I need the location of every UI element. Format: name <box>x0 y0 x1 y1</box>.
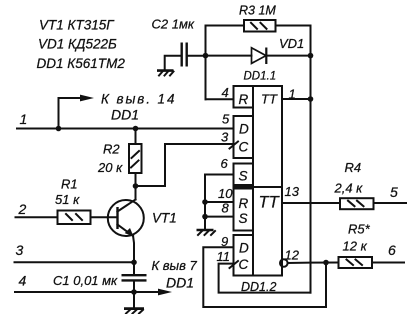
arrow to pin7 DD1 <box>158 289 172 296</box>
svg-text:C: C <box>239 140 249 155</box>
svg-text:1: 1 <box>20 111 28 127</box>
wire VD1 anode <box>206 55 252 57</box>
junction collector <box>133 183 139 189</box>
svg-text:R4: R4 <box>345 160 362 175</box>
resistor R4 <box>340 198 374 209</box>
junction VD1/right vertical <box>308 53 314 59</box>
svg-text:DD1.2: DD1.2 <box>241 280 276 294</box>
svg-text:6: 6 <box>388 242 396 258</box>
svg-text:C2 1мк: C2 1мк <box>152 17 195 32</box>
sub-box R,S ff2 <box>234 189 254 231</box>
junction node1-branch <box>56 126 62 132</box>
svg-text:10: 10 <box>218 186 233 201</box>
svg-text:R5*: R5* <box>348 222 371 237</box>
resistor R3 <box>244 20 276 32</box>
wire R2 top lead <box>135 129 137 145</box>
svg-text:2,4 к: 2,4 к <box>334 181 364 196</box>
transistor VT1 <box>108 200 144 237</box>
wire pin10 <box>205 201 234 203</box>
resistor R1 <box>58 211 91 225</box>
svg-text:3: 3 <box>221 130 229 145</box>
svg-text:2: 2 <box>18 201 27 217</box>
wire branch to K vyv.14 arrow <box>59 98 82 129</box>
svg-text:DD1 К561ТМ2: DD1 К561ТМ2 <box>37 56 126 71</box>
wire pin13 to R4 <box>282 202 340 204</box>
junction pin12/outer loop <box>323 260 329 266</box>
capacitor C1 <box>122 275 147 280</box>
junction pin8 <box>202 214 208 220</box>
svg-text:4: 4 <box>222 85 229 100</box>
svg-text:9: 9 <box>221 234 228 249</box>
wire right vertical Q1 net <box>310 26 312 293</box>
resistor R5 <box>339 257 373 268</box>
svg-text:VD1 КД522Б: VD1 КД522Б <box>38 37 117 52</box>
resistor R2 <box>129 144 142 173</box>
wire collector to pin3 C input <box>136 144 234 186</box>
svg-text:12 к: 12 к <box>343 239 368 254</box>
svg-text:5: 5 <box>390 184 398 200</box>
svg-text:DD1: DD1 <box>111 107 139 123</box>
svg-text:D: D <box>239 122 249 137</box>
svg-text:C1 0,01 мк: C1 0,01 мк <box>53 273 118 288</box>
wire C2 right to node <box>188 55 206 57</box>
svg-text:1: 1 <box>289 87 296 102</box>
svg-text:К выв. 14: К выв. 14 <box>101 92 176 107</box>
svg-text:20 к: 20 к <box>97 160 123 175</box>
ground at C2 <box>157 71 174 76</box>
wire node3 line <box>15 261 135 263</box>
ground column pins 6,10,8 <box>205 175 234 230</box>
wire emitter down <box>133 236 134 263</box>
svg-text:C: C <box>239 257 249 272</box>
svg-text:3: 3 <box>16 242 24 258</box>
svg-text:S: S <box>239 169 248 184</box>
wire VD1 cathode <box>266 55 310 57</box>
wire emitter junction to C1 <box>133 262 135 274</box>
wire R5 to node6 <box>372 262 404 264</box>
wire vertical R3-left / down to pin4 <box>205 26 207 100</box>
arrow to pin14 DD1 <box>80 95 94 102</box>
wire C1 bottom to node4 line <box>133 282 135 293</box>
capacitor C2 <box>182 43 187 67</box>
svg-text:VD1: VD1 <box>279 36 304 51</box>
inverted output circle pin12 <box>280 259 288 267</box>
junction C1/node4 <box>131 289 137 295</box>
junction C2/R3/VD1/pin4 <box>203 53 209 59</box>
svg-text:VT1: VT1 <box>152 211 177 226</box>
svg-text:4: 4 <box>19 273 27 289</box>
svg-text:R1: R1 <box>61 177 78 192</box>
svg-text:DD1: DD1 <box>166 275 194 291</box>
ground at pins column <box>197 230 216 235</box>
wire pin9 D2 outer feedback loop <box>203 247 326 307</box>
wire R2 bottom lead <box>135 173 137 186</box>
wire pin4 horizontal <box>206 98 234 100</box>
svg-text:6: 6 <box>221 156 229 171</box>
diode VD1 <box>252 48 267 65</box>
wire node4 line <box>15 291 159 293</box>
wire R4 to node5 <box>374 202 407 204</box>
sub-box D,C ff1 <box>234 116 254 158</box>
svg-text:13: 13 <box>285 184 300 199</box>
svg-text:К выв 7: К выв 7 <box>152 258 198 273</box>
dynamic input chevron pin3 <box>230 142 239 149</box>
wire pin8 <box>205 216 234 218</box>
junction pin10 <box>202 199 208 205</box>
junction emitter/node3 <box>131 260 137 266</box>
wire node1 to pin5 D input <box>17 128 234 130</box>
svg-text:R: R <box>239 92 249 107</box>
svg-text:R: R <box>239 196 249 211</box>
svg-text:R3 1М: R3 1М <box>239 4 276 18</box>
svg-text:11: 11 <box>217 249 231 264</box>
svg-text:S: S <box>239 211 248 226</box>
svg-text:VT1 КТ315Г: VT1 КТ315Г <box>39 18 115 33</box>
svg-text:D: D <box>239 241 249 256</box>
svg-text:5: 5 <box>222 112 230 127</box>
junction R2 top <box>133 126 139 132</box>
wire pin11 C2 inner feedback loop <box>219 264 311 293</box>
dynamic input chevron pin11 <box>230 261 239 268</box>
svg-text:TT: TT <box>259 194 281 212</box>
wire R3 right lead to right vertical <box>276 25 311 27</box>
wire node2 to R1 <box>16 216 58 218</box>
IC DD1 main field <box>234 86 283 276</box>
svg-text:R2: R2 <box>103 142 120 157</box>
svg-text:TT: TT <box>261 92 278 107</box>
svg-text:DD1.1: DD1.1 <box>244 71 277 83</box>
wire R3 left lead <box>206 25 245 27</box>
wire R1 to base <box>91 216 118 218</box>
svg-text:51 к: 51 к <box>55 192 80 207</box>
parts list text <box>37 18 126 72</box>
wire pin1 output <box>282 98 311 100</box>
sub-box S ff1 <box>234 164 254 186</box>
wire collector up <box>135 186 137 200</box>
wire pin12 to R5 <box>288 262 339 265</box>
ground at C1 <box>124 309 144 314</box>
sub-box R ff1 <box>234 86 254 108</box>
svg-text:8: 8 <box>222 201 230 216</box>
junction pin1/right vertical <box>308 96 314 102</box>
wire ground stub under C1 <box>133 292 135 308</box>
sub-box D,C ff2 <box>234 235 254 276</box>
wire C2 left to ground <box>165 56 181 70</box>
